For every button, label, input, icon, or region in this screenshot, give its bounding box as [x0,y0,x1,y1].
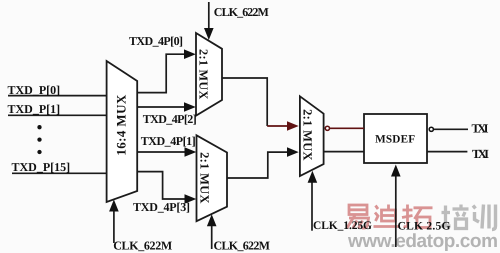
svg-text:TXD_P[0]: TXD_P[0] [8,83,61,97]
svg-text:TXD_4P[1]: TXD_4P[1] [141,134,196,148]
svg-text:TXI: TXI [472,121,489,135]
node circle MSDEF output [429,127,433,131]
watermark 拓 [402,205,433,228]
bottom 2:1 mux U3 [197,135,228,221]
svg-text:TXD_4P[2]: TXD_4P[2] [143,112,197,126]
MSDEF block U5 [364,114,427,163]
wire bottom mux output [227,152,288,178]
svg-text:TXD_P[15]: TXD_P[15] [12,160,71,174]
wire CLK_2.5G [395,176,397,247]
ellipsis dots [37,125,41,129]
middle 2:1 mux U4 [300,96,324,176]
wire CLK_1.25G [311,182,313,231]
wire TXD_4P[1] [137,151,185,153]
svg-text:2:1 MUX: 2:1 MUX [301,109,315,161]
svg-text:CLK_1.25G: CLK_1.25G [313,220,372,232]
wire into middle mux input1 (dark red) [267,125,287,127]
watermark 易 [347,205,369,228]
svg-text:CLK 2.5G: CLK 2.5G [398,220,451,232]
16:4 mux U1 [107,61,138,202]
wire CLK_622M top [208,2,210,29]
top 2:1 mux U2 [196,33,222,116]
wire middle mux to MSDEF (dark red) [330,127,364,129]
svg-text:www.edatop.com: www.edatop.com [347,231,498,252]
svg-text:TXD_P[1]: TXD_P[1] [8,102,61,116]
svg-text:CLK_622M: CLK_622M [113,238,172,252]
wire middle mux to MSDEF lower [324,151,364,153]
svg-text:CLK_622M: CLK_622M [214,5,269,19]
wire TXD_P[0] [8,95,107,97]
svg-text:16:4 MUX: 16:4 MUX [114,94,129,156]
node circle middle mux output [325,126,329,130]
wire TXD_4P[2] [137,106,184,108]
watermark 培 [441,205,469,229]
wire TXD_P[1] [8,114,107,116]
wire TXI bottom [427,151,467,153]
wire TXI top [434,128,468,130]
watermark 训 [473,205,496,230]
svg-text:TXI: TXI [472,147,489,161]
wire TXD_P[15] [12,172,107,174]
watermark 迪 [374,205,400,227]
wire CLK_622M bottom left [113,210,115,243]
wire TXD_4P[0] [137,54,184,92]
wire top mux output [222,78,267,126]
svg-text:TXD_4P[3]: TXD_4P[3] [133,200,190,214]
svg-text:MSDEF: MSDEF [375,134,415,146]
wire TXD_4P[3] [137,172,185,199]
svg-text:2:1 MUX: 2:1 MUX [197,49,211,100]
wire CLK_622M bottom mid [211,225,213,249]
svg-text:TXD_4P[0]: TXD_4P[0] [129,34,183,48]
svg-text:2:1 MUX: 2:1 MUX [197,152,211,204]
svg-text:CLK_622M: CLK_622M [214,238,271,252]
